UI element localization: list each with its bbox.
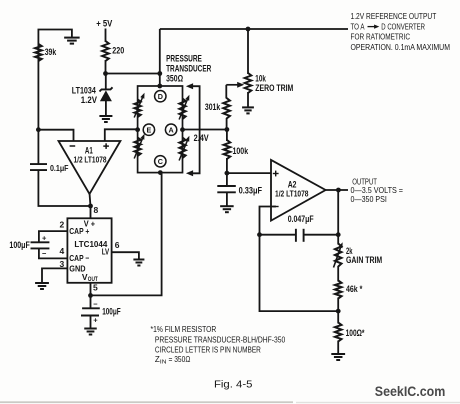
wire 10k bottom xyxy=(247,92,249,107)
label 0.047uF xyxy=(288,214,314,224)
wire feedback xyxy=(260,235,339,311)
svg-text:D CONVERTER: D CONVERTER xyxy=(381,22,425,32)
wire junction to cap xyxy=(37,130,39,164)
label 100uF flying xyxy=(9,240,30,250)
node 39k/cap junction xyxy=(36,127,41,132)
label 2.4V xyxy=(194,133,209,143)
label 0-3.5 VOLTS = xyxy=(351,185,404,195)
resistor 220 xyxy=(102,41,109,61)
node output xyxy=(336,188,341,193)
svg-text:GAIN TRIM: GAIN TRIM xyxy=(346,255,382,265)
transducer bridge outline xyxy=(138,86,183,173)
node top rail 10k xyxy=(246,27,251,32)
wire node to 100ohm xyxy=(337,311,339,323)
wire 100ohm to ground xyxy=(337,341,339,354)
svg-text:6: 6 xyxy=(115,240,120,250)
minus sign cap1 xyxy=(42,249,47,258)
svg-text:FOR RATIOMETRIC: FOR RATIOMETRIC xyxy=(351,31,411,41)
svg-text:−: − xyxy=(93,299,98,308)
node vout xyxy=(88,293,93,298)
wire 39k top to ground xyxy=(38,30,72,61)
plus sign cap1 xyxy=(42,233,47,242)
svg-text:2.4V: 2.4V xyxy=(194,133,209,143)
label pin 8 xyxy=(94,205,99,215)
wire pin3 to ground xyxy=(42,268,67,282)
wire 0.047uF right xyxy=(304,234,338,236)
svg-text:0.1μF: 0.1μF xyxy=(50,164,69,173)
note Zin xyxy=(155,355,190,366)
svg-text:PRESSURE: PRESSURE xyxy=(166,53,202,63)
label 46k* xyxy=(346,284,363,294)
svg-text:D: D xyxy=(158,92,163,101)
wire A2 output xyxy=(325,189,348,191)
wire A1 output xyxy=(90,193,91,207)
label OUTPUT xyxy=(352,176,377,186)
plus sign cap2 xyxy=(93,315,98,324)
ground G6 pin3 xyxy=(35,283,49,289)
label pin 5 xyxy=(93,283,98,293)
svg-text:E: E xyxy=(147,125,152,134)
svg-text:ZERO TRIM: ZERO TRIM xyxy=(255,83,293,93)
wire pin6 xyxy=(112,252,139,259)
label TRANSDUCER xyxy=(166,63,212,73)
node bridge top / 5V wire xyxy=(157,71,162,76)
svg-text:TO A: TO A xyxy=(351,22,365,32)
svg-text:PRESSURE TRANSDUCER-BLH/DHF-35: PRESSURE TRANSDUCER-BLH/DHF-350 xyxy=(155,336,286,345)
bridge sense arrows xyxy=(186,83,200,176)
ground G3 10k xyxy=(242,107,254,113)
wire 46k to node xyxy=(337,298,339,312)
ground G5 pin6 xyxy=(133,260,144,266)
svg-text:100Ω*: 100Ω* xyxy=(346,328,365,338)
node cap/output column xyxy=(336,232,341,237)
svg-text:100μF: 100μF xyxy=(9,240,30,250)
capacitor 100uF output xyxy=(81,308,100,315)
A2 minus sign xyxy=(273,206,279,208)
label CAP- xyxy=(69,253,89,263)
wire wiper to 301k xyxy=(225,85,227,99)
svg-text:A: A xyxy=(168,125,173,134)
ground G1 xyxy=(64,38,80,44)
node bridge bottom xyxy=(158,170,163,175)
svg-text:5: 5 xyxy=(93,283,98,293)
resistor 46k xyxy=(335,281,342,299)
node A junction xyxy=(180,127,185,132)
label OPERATION 0.1mA MAXIMUM xyxy=(351,42,451,52)
svg-text:0.33μF: 0.33μF xyxy=(239,185,263,195)
capacitor 0.047uF xyxy=(296,229,304,242)
wire pin4 xyxy=(39,249,68,259)
wire output down xyxy=(337,190,339,245)
label 0-350 PSI xyxy=(351,194,387,204)
wire vout to bridge bottom xyxy=(91,173,162,296)
wire A1 plus input up xyxy=(105,129,138,141)
wire 39k bottom xyxy=(37,60,39,130)
resistor 301k xyxy=(223,98,230,119)
A1 minus sign xyxy=(70,145,76,147)
wire 100k top xyxy=(226,130,228,142)
label 350 ohm xyxy=(166,73,183,83)
wire 301k bottom xyxy=(226,118,228,130)
wire 100k bottom xyxy=(226,158,228,173)
label 220 xyxy=(112,46,124,56)
pot 10k wiper arrow xyxy=(226,82,244,88)
capacitor 100uF flying xyxy=(31,242,50,248)
wire 0.33uF bottom xyxy=(226,193,228,206)
wire vout to cap xyxy=(90,295,92,308)
label A1 1/2 LT1078 xyxy=(74,155,107,165)
label 100ohm* xyxy=(346,328,365,338)
ground G2 LT1034 xyxy=(99,116,112,122)
wire cap2 to ground xyxy=(90,316,92,329)
node A1 output pin8 xyxy=(88,204,93,209)
pin E circle xyxy=(143,124,154,135)
label 39k xyxy=(45,47,57,58)
pin C circle xyxy=(155,156,166,167)
label 0.1uF xyxy=(50,164,69,173)
label 1.2V xyxy=(81,95,97,105)
label 2k xyxy=(346,246,353,256)
resistor 100k xyxy=(224,140,231,159)
label TO A - D CONVERTER xyxy=(351,22,426,32)
resistor R 39k xyxy=(35,44,42,61)
wire 0.33uF top xyxy=(226,173,228,186)
zener LT1034 body xyxy=(100,90,112,101)
node feedback right xyxy=(336,309,341,314)
scan edge bottom xyxy=(0,401,460,403)
svg-text:220: 220 xyxy=(112,46,124,56)
ground G4 0.33uF xyxy=(220,206,234,212)
svg-text:Fig. 4-5: Fig. 4-5 xyxy=(214,380,253,391)
svg-text:C: C xyxy=(158,157,163,166)
note pressure transducer xyxy=(155,336,286,345)
svg-text:OPERATION. 0.1mA MAXIMUM: OPERATION. 0.1mA MAXIMUM xyxy=(351,42,451,52)
capacitor 0.33uF xyxy=(217,186,236,192)
svg-text:TRANSDUCER: TRANSDUCER xyxy=(166,63,212,73)
node 220/LT1034 xyxy=(103,71,108,76)
wire cap to A1 output xyxy=(38,171,90,206)
wire node to bridge top column xyxy=(106,73,160,75)
A2 plus sign xyxy=(273,171,279,177)
label A2 xyxy=(288,179,297,189)
node 100k/0.33uF xyxy=(225,171,230,176)
svg-text:100k: 100k xyxy=(233,146,249,156)
label LV xyxy=(102,247,110,257)
wire to A2 plus xyxy=(227,172,271,174)
watermark SeekIC.com xyxy=(375,384,446,400)
wire top rail xyxy=(160,28,348,30)
svg-text:0—350 PSI: 0—350 PSI xyxy=(351,194,387,204)
svg-text:CAP +: CAP + xyxy=(69,226,89,236)
bridge resistor bottom-left xyxy=(134,134,144,159)
svg-text:CAP −: CAP − xyxy=(69,253,89,263)
node 301k/100k/bridge xyxy=(225,127,230,132)
note circled letter xyxy=(155,346,261,355)
node bridge top corner xyxy=(157,84,162,89)
potentiometer 2k gain trim xyxy=(334,242,343,267)
label V+ xyxy=(84,218,95,228)
svg-text:1/2 LT1078: 1/2 LT1078 xyxy=(74,155,107,165)
svg-text:0.047μF: 0.047μF xyxy=(288,214,314,224)
A1 plus sign xyxy=(103,143,109,149)
svg-text:+: + xyxy=(42,233,47,242)
label pin 2 xyxy=(60,220,65,230)
pin A circle xyxy=(165,124,176,135)
label 0.33uF xyxy=(239,185,263,195)
label LT1034 xyxy=(72,86,96,96)
wire 10k top xyxy=(247,29,249,74)
svg-text:IN: IN xyxy=(160,360,167,366)
label CAP+ xyxy=(69,226,89,236)
label VOUT xyxy=(82,272,98,283)
svg-text:46k *: 46k * xyxy=(346,284,363,294)
ground G7 cap2 xyxy=(84,329,97,335)
wire pin5 xyxy=(90,283,92,296)
node feedback left xyxy=(257,232,262,237)
label pin 4 xyxy=(60,246,65,256)
wire A node to 301k/100k xyxy=(183,129,227,131)
svg-text:350Ω: 350Ω xyxy=(166,73,183,83)
svg-text:−: − xyxy=(42,249,47,258)
svg-text:SeekIC.com: SeekIC.com xyxy=(375,384,446,400)
label A2 1/2 LT1078 xyxy=(275,188,309,198)
note 1% film resistor xyxy=(151,325,217,334)
pin D circle xyxy=(155,91,166,102)
label LTC1044 xyxy=(74,239,107,249)
svg-text:CIRCLED LETTER IS PIN NUMBER: CIRCLED LETTER IS PIN NUMBER xyxy=(155,346,261,355)
svg-text:+ 5V: + 5V xyxy=(96,18,112,28)
svg-text:+: + xyxy=(93,315,98,324)
wire bridge top column xyxy=(159,29,161,87)
label pin 6 xyxy=(115,240,120,250)
svg-text:LV: LV xyxy=(102,247,110,257)
ground G8 100ohm xyxy=(331,354,345,360)
label A1 xyxy=(85,146,93,156)
label PRESSURE xyxy=(166,53,202,63)
wire pin2 xyxy=(39,231,68,242)
zener LT1034 cathode bar xyxy=(100,87,113,91)
op-amp A1 body xyxy=(59,141,121,194)
bridge resistor top-left xyxy=(134,93,144,118)
op-amp A2 body xyxy=(271,160,326,221)
label 301k xyxy=(205,102,221,112)
wire 0.047uF left xyxy=(260,234,296,236)
label FOR RATIOMETRIC xyxy=(351,31,411,41)
wire +5V to 220 xyxy=(105,29,107,43)
label +5V xyxy=(96,18,112,28)
resistor 100ohm xyxy=(335,323,342,342)
label 100k xyxy=(233,146,249,156)
wire to A1 minus input xyxy=(38,130,73,142)
wire pin8 xyxy=(90,206,92,218)
wire 2k to 46k xyxy=(337,266,339,282)
caption Fig 4-5 xyxy=(214,380,253,391)
svg-text:4: 4 xyxy=(60,246,65,256)
bridge resistor bottom-right xyxy=(179,136,189,161)
svg-text:1.2V REFERENCE OUTPUT: 1.2V REFERENCE OUTPUT xyxy=(351,11,437,21)
label ZERO TRIM xyxy=(255,83,293,93)
label GAIN TRIM xyxy=(346,255,382,265)
svg-text:1.2V: 1.2V xyxy=(81,95,97,105)
bridge resistor top-right xyxy=(179,95,189,120)
svg-text:100μF: 100μF xyxy=(102,307,121,317)
svg-text:2: 2 xyxy=(60,220,65,230)
node E junction xyxy=(135,127,140,132)
IC LTC1044 box xyxy=(67,218,111,282)
wire LT1034 anode xyxy=(105,101,107,116)
svg-text:301k: 301k xyxy=(205,102,221,112)
label 1.2V REFERENCE OUTPUT xyxy=(351,11,437,21)
svg-text:1/2 LT1078: 1/2 LT1078 xyxy=(275,188,309,198)
svg-text:39k: 39k xyxy=(45,47,57,58)
minus sign cap2 xyxy=(93,299,98,308)
label GND xyxy=(69,264,85,274)
svg-text:*1% FILM RESISTOR: *1% FILM RESISTOR xyxy=(151,325,217,334)
svg-text:10k: 10k xyxy=(255,73,266,83)
potentiometer 10k xyxy=(245,73,252,93)
label pin 3 xyxy=(60,259,65,269)
wire to LT1034 xyxy=(105,74,107,90)
label 100uF output xyxy=(102,307,121,317)
svg-text:8: 8 xyxy=(94,205,99,215)
label 10k xyxy=(255,73,266,83)
wire A2 minus to left xyxy=(260,207,276,236)
svg-text:= 350Ω: = 350Ω xyxy=(169,355,191,364)
capacitor 0.1uF xyxy=(30,164,47,170)
wire 220 to node xyxy=(105,60,107,74)
